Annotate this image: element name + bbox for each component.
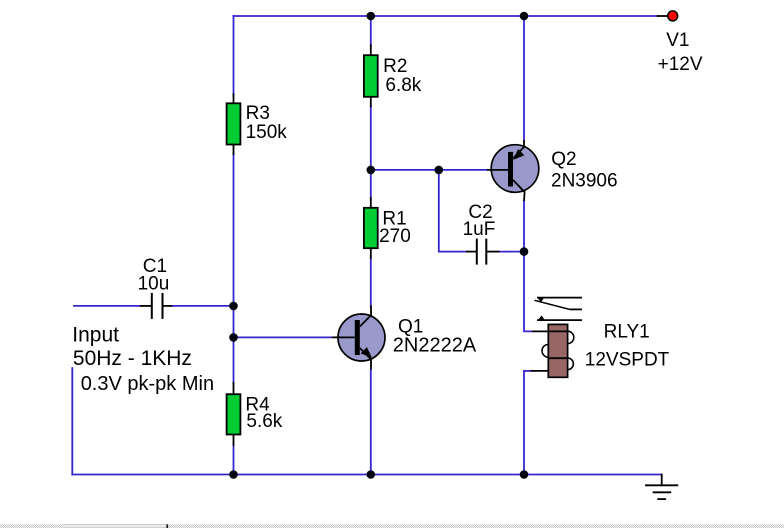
svg-text:50Hz - 1KHz: 50Hz - 1KHz (73, 347, 192, 370)
svg-text:Q2: Q2 (551, 149, 576, 170)
svg-text:V1: V1 (666, 30, 689, 51)
svg-text:R3: R3 (246, 103, 270, 124)
svg-text:5.6k: 5.6k (246, 411, 282, 432)
svg-text:150k: 150k (246, 122, 288, 143)
svg-text:RLY1: RLY1 (604, 321, 650, 342)
svg-text:0.3V pk-pk Min: 0.3V pk-pk Min (81, 373, 214, 395)
svg-text:2N3906: 2N3906 (551, 170, 618, 191)
svg-text:2N2222A: 2N2222A (393, 335, 477, 357)
svg-text:12VSPDT: 12VSPDT (585, 350, 670, 371)
svg-text:270: 270 (379, 226, 411, 247)
svg-text:1uF: 1uF (463, 219, 496, 240)
svg-text:+12V: +12V (658, 54, 703, 75)
svg-text:R2: R2 (383, 56, 407, 77)
svg-text:6.8k: 6.8k (385, 75, 421, 96)
svg-text:10u: 10u (138, 274, 170, 295)
svg-text:Input: Input (72, 323, 119, 346)
